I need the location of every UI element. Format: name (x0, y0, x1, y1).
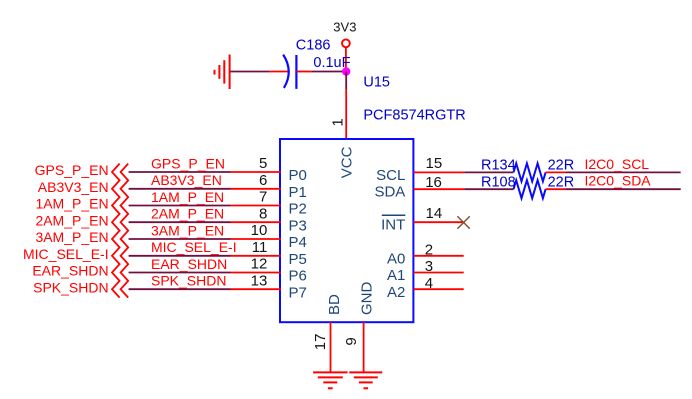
wire EAR_SHDN (129, 272, 231, 274)
svg-text:SDA: SDA (374, 184, 405, 201)
svg-text:U15: U15 (363, 75, 390, 91)
svg-text:5: 5 (259, 155, 267, 172)
svg-text:1AM_P_EN: 1AM_P_EN (35, 196, 108, 212)
svg-text:PCF8574RGTR: PCF8574RGTR (363, 107, 465, 123)
ground (pin 9) (349, 372, 382, 388)
svg-text:C186: C186 (296, 38, 331, 54)
pin 1 stub (VCC) (345, 89, 347, 140)
svg-text:GPS_P_EN: GPS_P_EN (151, 155, 225, 171)
resistor R134 22R (514, 163, 546, 181)
svg-text:11: 11 (252, 239, 268, 256)
svg-text:MIC_SEL_E-I: MIC_SEL_E-I (151, 239, 237, 255)
pin 6 stub (231, 188, 282, 190)
svg-text:P5: P5 (289, 251, 307, 268)
svg-text:R134: R134 (481, 158, 516, 174)
svg-text:I2C0_SCL: I2C0_SCL (585, 156, 650, 172)
svg-text:EAR_SHDN: EAR_SHDN (32, 263, 108, 279)
pin 15/16 stub (413, 171, 464, 173)
svg-text:2AM_P_EN: 2AM_P_EN (35, 212, 108, 228)
pin 7 stub (231, 205, 282, 207)
wire from R108 to net label (565, 188, 680, 190)
svg-text:12: 12 (251, 256, 268, 273)
svg-text:P6: P6 (289, 268, 307, 285)
power symbol 3V3 (open circle) (342, 39, 350, 47)
ground (top-left, rotated) (215, 55, 230, 90)
wire SPK_SHDN (129, 288, 231, 290)
pin 15/16 stub (413, 188, 464, 190)
svg-text:SCL: SCL (376, 167, 405, 184)
pin of R108 (546, 188, 566, 190)
svg-text:MIC_SEL_E-I: MIC_SEL_E-I (23, 246, 109, 262)
ground (pin 17) (313, 372, 348, 388)
svg-text:13: 13 (251, 272, 268, 289)
pin 9 stub (363, 322, 365, 372)
svg-text:VCC: VCC (339, 146, 356, 178)
no-connect X on INT (457, 216, 469, 229)
svg-text:3AM_P_EN: 3AM_P_EN (35, 229, 108, 245)
svg-text:10: 10 (251, 222, 268, 239)
svg-text:8: 8 (259, 205, 267, 222)
pin 5 stub (231, 171, 282, 173)
svg-text:P7: P7 (289, 284, 307, 301)
pin (left) of C186 (269, 71, 288, 73)
junction (solder dot) (342, 67, 350, 75)
svg-text:BD: BD (326, 294, 343, 315)
svg-text:P2: P2 (289, 201, 307, 218)
pin 11 stub (231, 255, 282, 257)
svg-text:17: 17 (312, 334, 329, 351)
pin 10 stub (231, 238, 282, 240)
pin 3 stub (413, 272, 463, 274)
svg-text:22R: 22R (548, 174, 575, 190)
wire MIC_SEL_E-I (129, 255, 231, 257)
svg-text:9: 9 (343, 337, 360, 345)
svg-text:7: 7 (259, 189, 267, 206)
svg-text:P3: P3 (289, 217, 307, 234)
svg-text:14: 14 (426, 205, 443, 222)
pin 2 stub (413, 255, 463, 257)
pin 4 stub (413, 288, 463, 290)
pin 14 stub (413, 221, 463, 223)
wire to R134 (464, 171, 513, 173)
svg-text:R108: R108 (481, 174, 516, 190)
svg-text:6: 6 (259, 172, 267, 189)
svg-text:SPK_SHDN: SPK_SHDN (33, 279, 108, 295)
wire: 3V3 circle to junction (345, 48, 347, 72)
svg-text:3V3: 3V3 (333, 19, 356, 34)
svg-text:P1: P1 (289, 184, 307, 201)
wire AB3V3_EN (129, 188, 231, 190)
wire to R108 (464, 188, 513, 190)
svg-text:1: 1 (330, 118, 347, 126)
capacitor C186 0.1uF (283, 55, 296, 89)
svg-text:AB3V3_EN: AB3V3_EN (151, 172, 222, 188)
svg-text:A0: A0 (387, 250, 405, 267)
svg-text:A2: A2 (387, 284, 405, 301)
svg-text:I2C0_SDA: I2C0_SDA (585, 173, 652, 189)
svg-text:GND: GND (358, 282, 375, 316)
pin 12 stub (231, 272, 282, 274)
wire: junction down to pin 1 (345, 72, 347, 90)
wire from R134 to net label (565, 171, 680, 173)
pin 13 stub (231, 288, 282, 290)
wire GPS_P_EN (129, 171, 231, 173)
svg-text:EAR_SHDN: EAR_SHDN (151, 256, 227, 272)
svg-text:P4: P4 (289, 234, 307, 251)
svg-text:SPK_SHDN: SPK_SHDN (151, 273, 226, 289)
svg-text:AB3V3_EN: AB3V3_EN (38, 179, 109, 195)
svg-text:GPS_P_EN: GPS_P_EN (35, 162, 109, 178)
wire 3AM_P_EN (129, 238, 231, 240)
IC U15 body (280, 139, 413, 322)
resistor R108 22R (514, 180, 546, 198)
svg-text:INT: INT (381, 217, 405, 234)
pin (right) of C186 (296, 71, 312, 73)
wire: C186 to junction (312, 71, 346, 73)
pin 8 stub (231, 221, 282, 223)
svg-text:2AM_P_EN: 2AM_P_EN (151, 206, 224, 222)
svg-text:A1: A1 (387, 267, 405, 284)
svg-text:15: 15 (426, 155, 443, 172)
wire: ground to C186 left plate (231, 71, 270, 73)
pin of R134 (546, 171, 566, 173)
wire 2AM_P_EN (129, 221, 231, 223)
svg-text:3AM_P_EN: 3AM_P_EN (151, 222, 224, 238)
svg-text:1AM_P_EN: 1AM_P_EN (151, 189, 224, 205)
wire 1AM_P_EN (129, 205, 231, 207)
svg-text:P0: P0 (289, 167, 307, 184)
svg-text:22R: 22R (548, 158, 575, 174)
pin 17 stub (330, 322, 332, 372)
off-page connector chevron chain (112, 164, 120, 298)
